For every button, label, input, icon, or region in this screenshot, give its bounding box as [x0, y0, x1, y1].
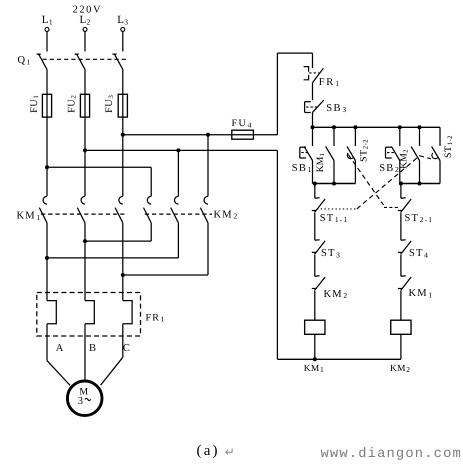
svg-text:FR1: FR1 — [146, 312, 166, 323]
svg-text:KM2: KM2 — [214, 210, 239, 221]
svg-text:FU2: FU2 — [66, 95, 77, 113]
svg-text:B: B — [89, 343, 96, 354]
svg-text:A: A — [56, 343, 64, 354]
svg-text:↵: ↵ — [225, 445, 235, 459]
svg-text:3: 3 — [78, 396, 83, 407]
svg-text:ST2-2: ST2-2 — [359, 139, 370, 162]
svg-text:L2: L2 — [80, 14, 91, 26]
svg-text:SB3: SB3 — [326, 103, 347, 114]
svg-text:ST4: ST4 — [409, 248, 429, 259]
svg-text:SB1: SB1 — [292, 163, 313, 174]
svg-text:KM2: KM2 — [390, 364, 410, 374]
svg-text:KM1: KM1 — [315, 153, 326, 172]
svg-text:(a): (a) — [197, 443, 220, 459]
svg-text:220V: 220V — [73, 4, 103, 15]
svg-text:ST1-1: ST1-1 — [320, 213, 349, 224]
svg-text:L1: L1 — [42, 14, 53, 26]
svg-text:C: C — [123, 343, 130, 354]
svg-text:KM2: KM2 — [324, 289, 349, 300]
svg-text:ST1-2: ST1-2 — [443, 135, 454, 158]
svg-text:FU3: FU3 — [104, 95, 115, 113]
svg-text:L3: L3 — [117, 14, 128, 26]
svg-text:FR1: FR1 — [319, 77, 341, 88]
svg-text:Q1: Q1 — [18, 55, 31, 66]
svg-text:www.diangon.com: www.diangon.com — [321, 447, 462, 462]
svg-text:ST3: ST3 — [321, 248, 341, 259]
svg-text:KM1: KM1 — [409, 288, 434, 299]
svg-text:FU1: FU1 — [29, 95, 40, 113]
svg-text:FU4: FU4 — [232, 118, 253, 129]
svg-text:ST2-1: ST2-1 — [405, 213, 434, 224]
svg-text:KM1: KM1 — [17, 211, 42, 222]
svg-text:SB2: SB2 — [379, 163, 400, 174]
svg-text:KM1: KM1 — [304, 364, 324, 374]
